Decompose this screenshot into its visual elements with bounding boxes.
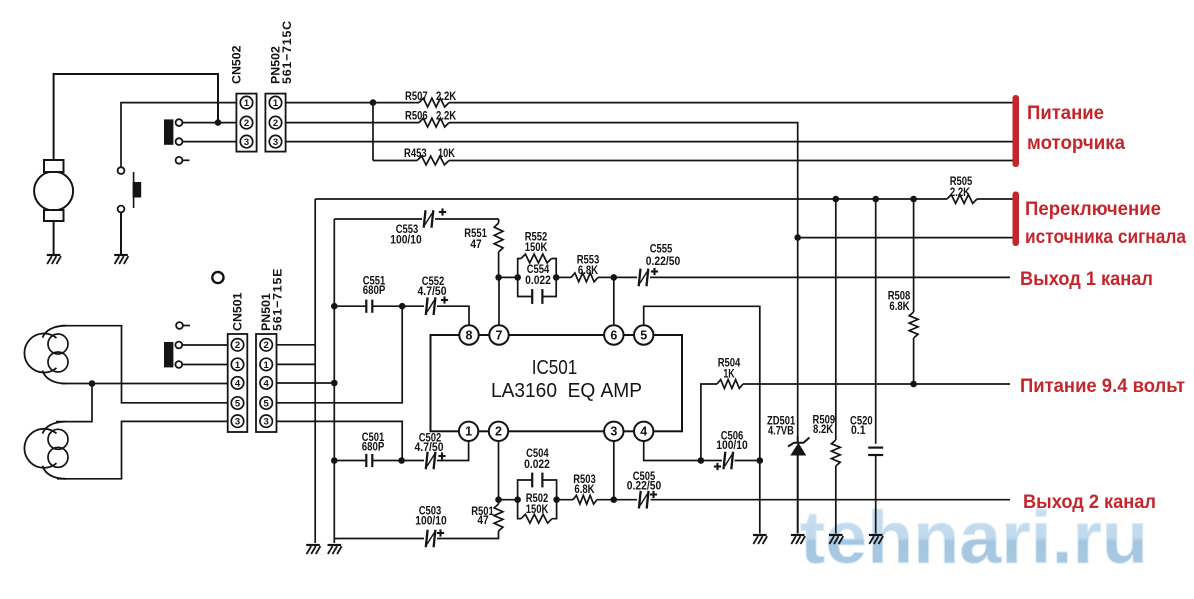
junction dot motor wire / pin2 line: [215, 119, 222, 126]
svg-text:6.8K: 6.8K: [574, 484, 595, 496]
junction dot pin7 node: [495, 274, 502, 281]
svg-text:Питание 9.4 вольт: Питание 9.4 вольт: [1020, 376, 1185, 397]
svg-text:0.22/50: 0.22/50: [627, 480, 662, 492]
wire R504 left: [701, 384, 717, 461]
capacitor C553: [424, 210, 426, 228]
svg-text:2: 2: [244, 118, 249, 129]
svg-text:CN501: CN501: [231, 292, 245, 331]
CN501 pin 1: [231, 358, 243, 370]
svg-text:47: 47: [477, 515, 488, 527]
resistor R552: [518, 259, 521, 278]
wire R553 to node6: [598, 276, 614, 278]
svg-text:8.2K: 8.2K: [813, 424, 834, 436]
switch S501 contact top: [118, 167, 125, 174]
svg-text:LA3160 EQ AMP: LA3160 EQ AMP: [491, 380, 642, 402]
wire C502 to pin1: [437, 441, 469, 461]
connector PN502 box: [265, 94, 285, 152]
resistor R453: [417, 156, 449, 165]
IC pin 7: [489, 325, 508, 344]
svg-text:R507: R507: [405, 91, 428, 103]
PN502 pin 3: [269, 135, 281, 147]
svg-text:6.8K: 6.8K: [578, 265, 599, 277]
switch bar CN502: [164, 119, 173, 144]
resistor R504: [717, 380, 743, 389]
svg-text:R506: R506: [405, 110, 428, 122]
zener ZD501: [797, 436, 799, 443]
svg-text:7: 7: [496, 328, 503, 342]
wire R508 bottom: [913, 338, 915, 384]
junction dot bus B C501: [331, 457, 338, 464]
IC pin 4: [634, 422, 653, 441]
wire node7 to combo: [499, 276, 518, 278]
IC pin 8: [459, 325, 478, 344]
svg-text:150K: 150K: [526, 504, 549, 516]
wire combo2 to R503: [557, 499, 573, 501]
svg-text:3: 3: [610, 425, 617, 439]
junction dot R509 top: [833, 196, 840, 203]
capacitor C503: [426, 530, 428, 548]
resistor R501: [494, 504, 503, 531]
contact to CN502 pin3: [176, 138, 183, 145]
junction dot R453 branch: [370, 99, 377, 106]
contact to CN501 pin1: [175, 361, 182, 368]
svg-text:100/10: 100/10: [390, 235, 422, 247]
CN501 pin 2: [231, 339, 243, 351]
IC U IC501 box: [431, 335, 683, 431]
resistor R508: [909, 312, 918, 338]
svg-text:0.022: 0.022: [525, 275, 551, 287]
capacitor C505: [639, 491, 641, 509]
svg-text:2: 2: [235, 340, 240, 351]
wire ground bus A: [314, 199, 316, 543]
wire head1 bottom pin4 line: [61, 383, 228, 385]
svg-text:0.1: 0.1: [851, 425, 866, 437]
svg-text:Выход 2 канал: Выход 2 канал: [1023, 492, 1156, 513]
wire pin2 rail to ZD vertical: [449, 123, 798, 436]
wire R508 top: [913, 199, 915, 312]
IC pin 3: [604, 422, 623, 441]
wire R501 to C503 rail: [437, 531, 499, 539]
wire PN501 pin4 to bus: [277, 382, 335, 384]
wire pin5 route: [644, 306, 760, 533]
red bar motor power: [1013, 95, 1020, 167]
svg-text:2.2K: 2.2K: [436, 110, 457, 122]
wire head2 top to common: [56, 384, 92, 422]
svg-text:561−715E: 561−715E: [271, 268, 285, 331]
PN501 pin 4: [260, 377, 272, 389]
svg-text:2: 2: [495, 425, 502, 439]
wire C506 left: [701, 460, 722, 462]
svg-text:1: 1: [235, 360, 241, 371]
wire PN501 pin2 to bus: [277, 344, 316, 346]
connector CN501 box: [228, 334, 248, 432]
wire pin2 rail left: [286, 122, 419, 124]
CN501 pin 5: [231, 397, 243, 409]
resistor R509: [831, 440, 840, 466]
wire PN501 pin5 route: [277, 306, 403, 403]
wire C555 to output1: [650, 276, 1010, 278]
IC pin 5: [634, 325, 653, 344]
open contact above CN501: [176, 322, 183, 329]
svg-text:R505: R505: [950, 176, 973, 188]
svg-text:47: 47: [470, 239, 481, 251]
wire node6 to C555: [614, 276, 637, 278]
wire C501 to node: [373, 460, 402, 462]
junction dot pin2 rail drop: [794, 234, 801, 241]
junction dot C551 C552 node: [399, 303, 406, 310]
PN501 pin 1: [260, 358, 272, 370]
capacitor C506: [724, 452, 726, 470]
svg-text:100/10: 100/10: [415, 516, 447, 528]
svg-text:10K: 10K: [438, 148, 456, 160]
wire R453 branch vertical: [372, 103, 374, 161]
wire R509 bottom: [835, 466, 837, 534]
CN501 pin 3: [231, 415, 243, 427]
junction dot head common: [89, 380, 96, 387]
wire pin3 down: [613, 441, 615, 500]
PN501 pin 3: [260, 415, 272, 427]
wire pin7 up: [498, 277, 500, 325]
contact to CN501 pin2: [175, 342, 182, 349]
junction dot C501 C502 node: [398, 457, 405, 464]
red bar source switching: [1013, 192, 1020, 247]
junction dot bus B pin4: [331, 380, 338, 387]
CN502 pin 1: [240, 96, 252, 108]
ground C520: [869, 534, 883, 536]
svg-text:моторчика: моторчика: [1027, 133, 1125, 154]
capacitor C501: [365, 454, 367, 467]
capacitor C502: [426, 452, 428, 470]
svg-text:2: 2: [273, 118, 278, 129]
junction dot pin2 node: [495, 496, 502, 503]
svg-text:5: 5: [235, 398, 241, 409]
wire motor bottom to ground: [53, 221, 55, 254]
svg-text:4: 4: [235, 378, 241, 389]
wire C520 top: [875, 199, 877, 444]
wire C552 to pin8: [437, 306, 469, 325]
switch S501 actuator: [133, 172, 135, 208]
svg-text:Выход 1 канал: Выход 1 канал: [1020, 269, 1153, 290]
capacitor C504: [518, 480, 533, 500]
contact to CN502 pin2: [176, 119, 183, 126]
ground pin5 route: [753, 534, 767, 536]
svg-text:C555: C555: [650, 244, 673, 256]
junction dot combo left: [514, 274, 521, 281]
wire pin1 rail right: [449, 102, 1013, 104]
svg-text:Питание: Питание: [1027, 103, 1104, 124]
svg-text:2: 2: [264, 340, 269, 351]
junction dot combo2 left: [514, 496, 521, 503]
ground switch: [114, 254, 128, 256]
svg-text:CN502: CN502: [230, 45, 244, 84]
wire R551 bottom: [498, 252, 500, 277]
capacitor C552: [426, 297, 428, 315]
svg-text:0.022: 0.022: [524, 459, 550, 471]
connector CN502 box: [236, 94, 256, 152]
junction dot bus B C551: [331, 303, 338, 310]
svg-text:1: 1: [273, 98, 279, 109]
resistor R507: [419, 98, 449, 107]
wire PN501 pin1 to bus: [277, 363, 316, 365]
ground motor: [47, 254, 61, 256]
svg-text:4: 4: [640, 425, 647, 439]
junction dot R508 top: [910, 196, 917, 203]
ground bus B: [328, 544, 342, 546]
CN502 pin 2: [240, 116, 252, 128]
PN502 pin 2: [269, 116, 281, 128]
wire 9.4V rail: [743, 383, 1010, 385]
switch bar CN501: [164, 342, 173, 367]
svg-text:источника сигнала: источника сигнала: [1025, 227, 1186, 248]
IC pin 1: [459, 422, 478, 441]
svg-text:2.2K: 2.2K: [436, 91, 457, 103]
junction dot combo right: [553, 274, 560, 281]
svg-text:Переключение: Переключение: [1025, 199, 1161, 220]
resistor R551: [494, 223, 503, 252]
junction dot R504 C506 node: [698, 457, 705, 464]
svg-text:3: 3: [244, 137, 249, 148]
wire combo to R553: [556, 276, 571, 278]
wire R551 top: [498, 219, 500, 223]
wire contact to CN501 pin2: [182, 344, 228, 346]
junction dot pin6 node: [611, 274, 618, 281]
svg-text:100/10: 100/10: [716, 440, 748, 452]
wire contact to CN501 pin1: [182, 364, 228, 366]
wire bus to C551: [334, 305, 366, 307]
resistor R506: [419, 118, 449, 127]
svg-text:680P: 680P: [363, 285, 386, 297]
wire C503 to bus: [334, 538, 424, 540]
wire bus to C501: [334, 460, 366, 462]
open contact below CN502: [176, 157, 183, 164]
wire node2 to combo: [499, 499, 518, 501]
tape head 2: [24, 429, 56, 468]
svg-text:5: 5: [264, 398, 270, 409]
connector PN501 box: [256, 334, 277, 432]
wire R453 rail left: [373, 160, 417, 162]
svg-text:1: 1: [465, 425, 472, 439]
wire C520 bottom: [875, 455, 877, 534]
ground R509: [829, 534, 843, 536]
capacitor C555: [639, 269, 641, 287]
motor M501: [34, 172, 73, 211]
wire C551 to node: [373, 305, 403, 307]
svg-text:6: 6: [610, 328, 617, 342]
svg-text:4.7/50: 4.7/50: [418, 286, 447, 298]
wire R503 to node3: [597, 499, 614, 501]
wire node2 down: [498, 500, 500, 504]
wire switching rail right: [977, 198, 1013, 200]
ground bus A: [306, 544, 320, 546]
wire switch top to pin1 line: [121, 103, 236, 168]
svg-text:3: 3: [273, 137, 278, 148]
svg-text:561−715C: 561−715C: [280, 20, 294, 84]
junction dot C506 gnd bus: [757, 457, 764, 464]
svg-text:1: 1: [264, 360, 270, 371]
PN501 pin 5: [260, 397, 272, 409]
wire motor top to CN502 pin2: [54, 74, 218, 160]
svg-text:150K: 150K: [525, 242, 548, 254]
svg-text:5: 5: [640, 328, 647, 342]
IC pin 2: [489, 422, 508, 441]
svg-text:1: 1: [244, 98, 250, 109]
svg-text:4: 4: [264, 378, 270, 389]
wire C553 rail: [334, 218, 422, 220]
wire PN501 pin3 route: [277, 421, 403, 460]
wire R453 rail right: [449, 160, 1013, 162]
wire pin2 down: [498, 441, 500, 500]
junction dot combo2 right: [553, 496, 560, 503]
svg-text:3: 3: [235, 417, 240, 428]
svg-text:R453: R453: [404, 148, 427, 160]
junction dot pin3 node: [611, 496, 618, 503]
svg-text:6.8K: 6.8K: [889, 301, 910, 313]
resistor R553: [571, 273, 598, 282]
svg-text:4.7VB: 4.7VB: [768, 425, 794, 437]
junction dot C520 top: [872, 196, 879, 203]
wire pin3 rail: [286, 141, 1013, 143]
PN501 pin 2: [260, 339, 272, 351]
capacitor C551: [365, 300, 367, 313]
svg-text:680P: 680P: [362, 441, 385, 453]
resistor R502: [518, 500, 521, 519]
svg-text:1K: 1K: [723, 368, 735, 380]
PN502 pin 1: [269, 96, 281, 108]
CN501 pin 4: [231, 377, 243, 389]
svg-text:2.2K: 2.2K: [950, 187, 971, 199]
tape head 1: [24, 334, 56, 373]
capacitor C520: [868, 447, 883, 449]
IC pin 6: [604, 325, 623, 344]
resistor R503: [573, 495, 597, 504]
wire C505 to output2: [651, 499, 1011, 501]
svg-text:IC501: IC501: [532, 357, 578, 379]
wire node to C502: [402, 460, 424, 462]
wire node3 to C505: [614, 499, 637, 501]
switch S501 contact bottom: [118, 206, 125, 213]
wire contact to CN502 pin3: [182, 141, 236, 143]
wire pin6 up: [613, 277, 615, 325]
wire head2 bottom to pin3: [57, 421, 228, 478]
svg-text:8: 8: [466, 328, 473, 342]
wire pin4 route: [644, 441, 701, 461]
capacitor C554: [518, 277, 533, 296]
mount hole: [212, 272, 223, 283]
wire contact to CN502 pin2: [182, 122, 236, 124]
svg-text:3: 3: [264, 417, 269, 428]
wire pin1 rail left: [286, 102, 419, 104]
wire ground bus B: [333, 219, 335, 543]
svg-text:0.22/50: 0.22/50: [646, 256, 681, 268]
wire head1 top to pin5: [61, 326, 228, 403]
wire R509 top: [835, 199, 837, 440]
svg-text:4.7/50: 4.7/50: [415, 442, 444, 454]
resistor R505: [947, 195, 977, 204]
wire switching rail: [315, 198, 947, 200]
wire switch bottom to ground: [120, 212, 122, 254]
wire switching rail 2: [798, 237, 1013, 239]
junction dot R508 bottom: [910, 381, 917, 388]
wire C506 right: [735, 460, 760, 462]
CN502 pin 3: [240, 135, 252, 147]
ground ZD501: [791, 534, 805, 536]
wire node to C552: [402, 305, 424, 307]
